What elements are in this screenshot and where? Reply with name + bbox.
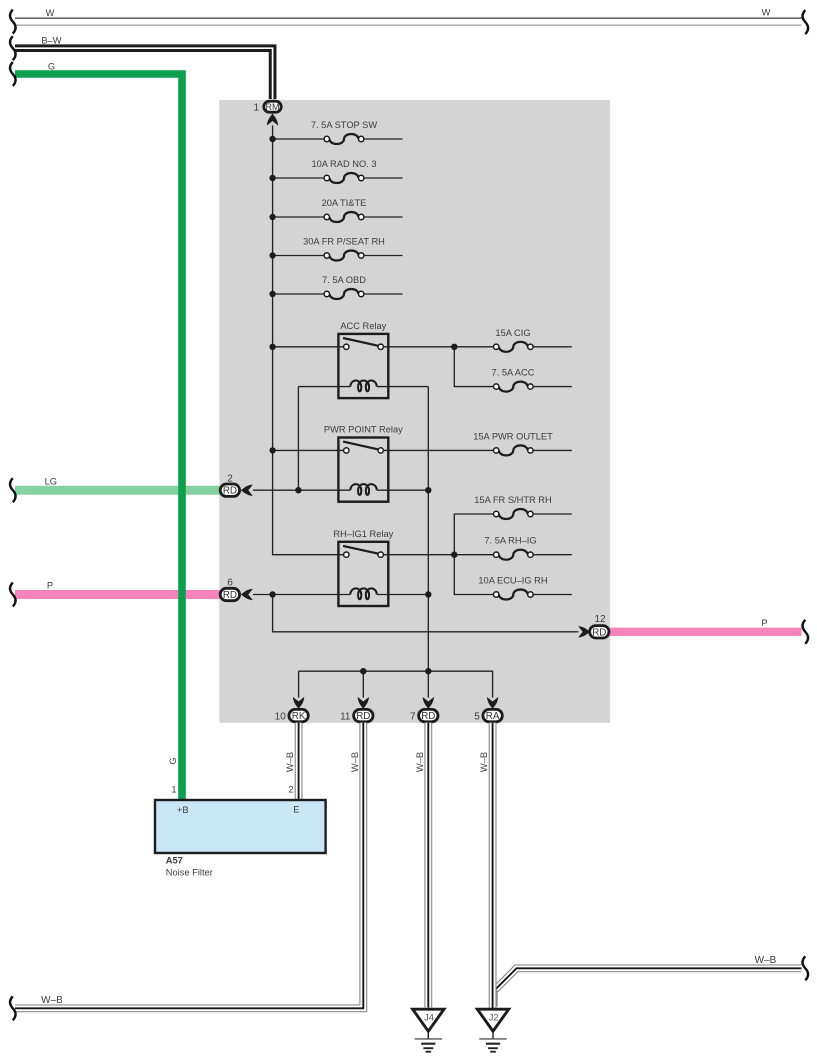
svg-text:10A RAD NO. 3: 10A RAD NO. 3	[311, 159, 376, 169]
svg-text:2: 2	[227, 473, 233, 484]
svg-text:E: E	[293, 804, 299, 814]
svg-text:RD: RD	[356, 711, 370, 722]
svg-text:RM: RM	[266, 102, 280, 112]
svg-text:Noise Filter: Noise Filter	[166, 868, 213, 878]
svg-text:7. 5A RH–IG: 7. 5A RH–IG	[484, 536, 536, 546]
svg-text:W–B: W–B	[350, 752, 360, 772]
svg-text:RD: RD	[592, 627, 606, 638]
svg-text:7. 5A ACC: 7. 5A ACC	[492, 368, 535, 378]
svg-text:6: 6	[227, 577, 233, 588]
svg-text:J4: J4	[424, 1013, 434, 1023]
svg-text:G: G	[48, 62, 55, 72]
svg-text:W–B: W–B	[415, 752, 425, 772]
svg-text:15A FR S/HTR RH: 15A FR S/HTR RH	[474, 495, 552, 505]
svg-text:W–B: W–B	[479, 752, 489, 772]
svg-text:15A CIG: 15A CIG	[495, 328, 530, 338]
svg-text:20A TI&TE: 20A TI&TE	[322, 198, 367, 208]
svg-text:RK: RK	[292, 711, 306, 722]
svg-text:RD: RD	[421, 711, 435, 722]
svg-text:7: 7	[410, 711, 416, 722]
svg-text:15A PWR OUTLET: 15A PWR OUTLET	[473, 431, 553, 441]
svg-text:2: 2	[288, 785, 293, 795]
svg-text:G: G	[168, 757, 178, 764]
svg-text:P: P	[761, 618, 767, 628]
svg-text:7. 5A OBD: 7. 5A OBD	[322, 275, 366, 285]
svg-text:W: W	[46, 8, 55, 18]
svg-text:J2: J2	[489, 1013, 499, 1023]
svg-text:5: 5	[474, 711, 480, 722]
svg-text:B–W: B–W	[41, 36, 61, 46]
svg-text:ACC Relay: ACC Relay	[340, 321, 386, 331]
svg-text:A57: A57	[166, 856, 183, 866]
svg-text:10A ECU–IG RH: 10A ECU–IG RH	[478, 576, 547, 586]
svg-text:11: 11	[340, 711, 351, 722]
svg-text:W: W	[762, 8, 771, 18]
svg-text:RD: RD	[223, 590, 237, 601]
svg-text:+B: +B	[177, 805, 189, 815]
svg-text:1: 1	[171, 785, 176, 795]
svg-text:RA: RA	[486, 711, 500, 722]
svg-text:RD: RD	[223, 486, 237, 497]
svg-text:PWR POINT Relay: PWR POINT Relay	[324, 425, 403, 435]
svg-text:30A FR P/SEAT RH: 30A FR P/SEAT RH	[303, 237, 385, 247]
svg-text:7. 5A STOP SW: 7. 5A STOP SW	[311, 120, 378, 130]
svg-text:W–B: W–B	[41, 995, 63, 1006]
svg-text:RH–IG1 Relay: RH–IG1 Relay	[333, 529, 393, 539]
svg-text:1: 1	[253, 103, 259, 114]
svg-text:LG: LG	[45, 476, 57, 486]
svg-text:W–B: W–B	[755, 955, 777, 966]
svg-text:P: P	[47, 580, 53, 590]
svg-text:12: 12	[594, 614, 606, 625]
svg-text:W–B: W–B	[285, 752, 295, 772]
svg-text:10: 10	[275, 711, 287, 722]
